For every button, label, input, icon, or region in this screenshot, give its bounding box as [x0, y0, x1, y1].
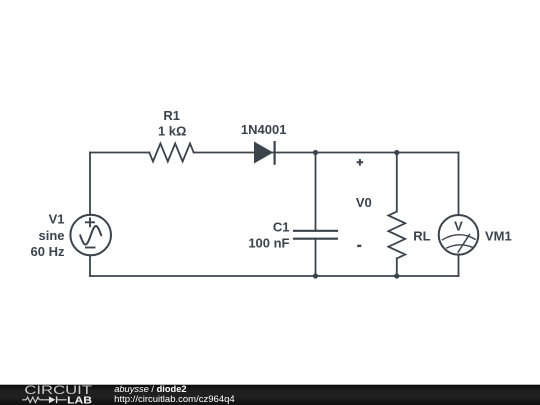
voltmeter VM1 upper scale arc [442, 235, 476, 241]
voltage source V1 sine wave [80, 226, 101, 245]
wire top rail [90, 152, 459, 154]
diode D1 cathode bar [274, 141, 276, 165]
voltage source V1 plus sign [85, 217, 95, 227]
voltmeter VM1 lower scale arc [446, 245, 473, 249]
svg-text:V: V [454, 218, 463, 233]
wire right rail lower [458, 255, 460, 276]
svg-text:60 Hz: 60 Hz [31, 244, 65, 259]
node label minus [357, 245, 361, 247]
svg-text:R1: R1 [163, 108, 180, 123]
voltage source V1 circle [70, 215, 111, 256]
voltmeter VM1 circle [439, 215, 479, 255]
svg-text:V1: V1 [49, 211, 65, 226]
svg-text:http://circuitlab.com/cz964q4: http://circuitlab.com/cz964q4 [114, 394, 234, 404]
footer bar [0, 385, 540, 405]
logo mini wire out [57, 399, 66, 401]
junction dot top capacitor node [313, 150, 318, 155]
logo mini diode [49, 396, 56, 403]
junction dot bottom RL node [394, 273, 399, 278]
logo mini wire lead-in [22, 399, 26, 401]
voltmeter VM1 needle [458, 234, 470, 253]
wire capacitor branch lower [315, 239, 317, 276]
wire right rail upper [458, 153, 460, 216]
wire left rail lower [89, 255, 91, 276]
node label plus [357, 159, 364, 166]
wire bottom rail [90, 275, 459, 277]
svg-text:sine: sine [38, 228, 64, 243]
wire RL branch upper [396, 153, 398, 212]
svg-text:VM1: VM1 [485, 228, 512, 243]
capacitor C1 [294, 231, 337, 239]
diode D1 triangle [254, 142, 273, 164]
junction dot bottom capacitor node [313, 273, 318, 278]
resistor RL [388, 212, 405, 259]
wire RL branch lower [396, 258, 398, 276]
logo mini resistor [26, 397, 39, 402]
voltage source V1 minus sign [85, 247, 96, 249]
wire capacitor branch upper [315, 153, 317, 231]
wire left rail [89, 153, 91, 216]
logo mini diode bar [56, 396, 58, 403]
resistor R1 [149, 144, 193, 162]
svg-text:C1: C1 [273, 220, 290, 235]
junction dot top RL node [394, 150, 399, 155]
svg-text:V0: V0 [356, 195, 372, 210]
svg-text:1 kΩ: 1 kΩ [158, 124, 187, 139]
svg-text:1N4001: 1N4001 [241, 122, 287, 137]
svg-text:RL: RL [413, 229, 430, 244]
svg-text:LAB: LAB [67, 396, 92, 405]
svg-text:100 nF: 100 nF [248, 236, 289, 251]
svg-text:abuysse / diode2: abuysse / diode2 [114, 384, 186, 394]
logo mini wire mid [39, 399, 49, 401]
